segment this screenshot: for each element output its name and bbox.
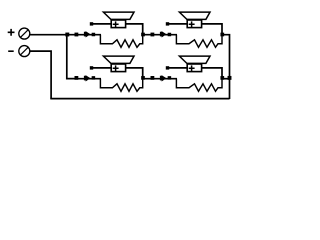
speaker LS3 output wire <box>126 68 143 79</box>
speaker LS2 plus polarity mark <box>189 21 195 27</box>
current direction arrow into cell 3 <box>84 75 91 81</box>
speaker LS3 input wire <box>92 67 112 69</box>
junction dot after arrow (cell 3) <box>92 76 96 80</box>
speaker LS4 plus polarity mark <box>189 65 195 71</box>
current direction arrow into cell 1 <box>84 31 91 37</box>
current direction arrow into cell 2 <box>160 31 167 37</box>
speaker LS1 input wire <box>92 23 112 25</box>
speaker LS2 output wire <box>202 24 222 35</box>
wire from minus terminal down <box>30 51 51 99</box>
minus input terminal J2 <box>19 46 30 57</box>
right return bus wire <box>221 35 230 99</box>
speaker LS2 input stub dot <box>166 22 169 25</box>
speaker LS1 plus polarity mark <box>113 21 119 27</box>
speaker LS2 cone <box>179 12 210 19</box>
speaker LS1 cone <box>103 12 134 19</box>
node dot at cell 2 output <box>220 33 224 37</box>
wire from plus terminal to node A <box>30 34 69 36</box>
wire bottom chain segment into cell 3 <box>67 78 101 80</box>
speaker LS4 output wire <box>202 68 222 79</box>
speaker LS1 body <box>111 20 125 28</box>
speaker LS3 plus polarity mark <box>113 65 119 71</box>
junction dot bottom chain to right bus <box>228 76 232 80</box>
node dot at cell 1 output <box>141 33 145 37</box>
node dot at cell 3 output <box>141 76 145 80</box>
junction dot on top chain before arrow (cell 1) <box>75 33 79 37</box>
plus input label <box>8 29 15 36</box>
junction dot on bottom chain before arrow (cell 3) <box>75 76 79 80</box>
bottom return bus wire <box>50 98 229 100</box>
speaker LS1 output wire <box>126 24 143 35</box>
junction dot after arrow (cell 1) <box>92 33 96 37</box>
junction dot on top chain before arrow (cell 2) <box>151 33 155 37</box>
plus input terminal J1 <box>19 28 30 39</box>
junction dot after arrow (cell 4) <box>168 76 172 80</box>
speaker LS2 body <box>187 20 201 28</box>
wire bottom chain segment into cell 4 <box>143 78 177 80</box>
speaker LS3 input stub dot <box>90 66 93 69</box>
speaker LS4 cone <box>179 56 210 63</box>
current direction arrow into cell 4 <box>160 75 167 81</box>
node dot at cell 4 output <box>220 76 224 80</box>
node A junction (plus bus tap) <box>65 33 69 37</box>
wire top chain segment into cell 1 <box>67 34 101 36</box>
speaker LS2 input wire <box>168 23 188 25</box>
speaker LS3 cone <box>103 56 134 63</box>
wire top chain segment into cell 2 <box>143 34 177 36</box>
minus input label <box>8 50 14 52</box>
speaker LS4 body <box>187 64 201 72</box>
wire bottom chain output to right bus <box>222 78 230 80</box>
resistor R3 <box>100 79 142 92</box>
speaker LS4 input stub dot <box>166 66 169 69</box>
resistor R2 <box>176 35 222 48</box>
speaker LS3 body <box>111 64 125 72</box>
plus bus vertical wire to bottom chain <box>67 35 77 79</box>
speaker LS4 input wire <box>168 67 188 69</box>
speaker LS1 input stub dot <box>90 22 93 25</box>
resistor R1 <box>100 35 142 48</box>
resistor R4 <box>176 79 222 92</box>
junction dot after arrow (cell 2) <box>168 33 172 37</box>
junction dot on bottom chain before arrow (cell 4) <box>151 76 155 80</box>
